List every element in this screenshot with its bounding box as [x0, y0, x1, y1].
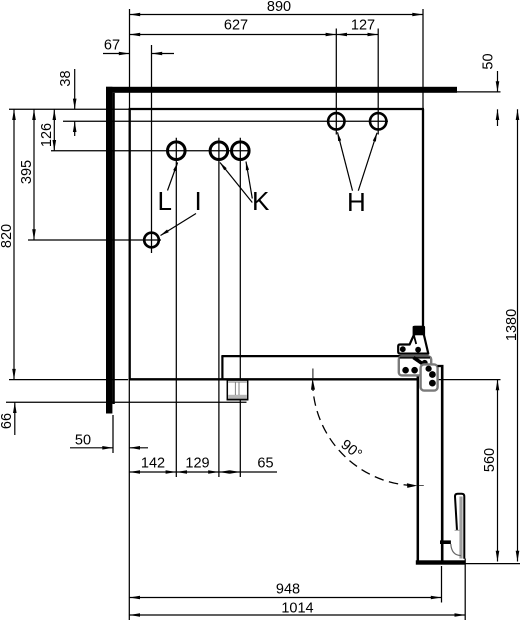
svg-text:L: L	[158, 186, 172, 216]
svg-text:560: 560	[482, 448, 498, 472]
svg-text:65: 65	[257, 456, 273, 472]
svg-text:50: 50	[75, 433, 91, 449]
svg-text:142: 142	[141, 456, 165, 472]
svg-text:1014: 1014	[281, 601, 313, 617]
svg-text:890: 890	[267, 0, 291, 15]
svg-text:I: I	[195, 186, 202, 216]
svg-text:1380: 1380	[504, 309, 520, 341]
svg-text:50: 50	[481, 53, 497, 69]
svg-text:66: 66	[0, 413, 15, 429]
svg-text:38: 38	[58, 70, 74, 86]
svg-text:948: 948	[276, 582, 300, 598]
svg-text:627: 627	[224, 18, 248, 34]
svg-text:67: 67	[104, 38, 120, 54]
svg-text:K: K	[252, 186, 270, 216]
svg-text:H: H	[347, 187, 366, 217]
svg-text:129: 129	[185, 456, 209, 472]
svg-text:127: 127	[351, 18, 375, 34]
svg-text:126: 126	[39, 123, 55, 147]
svg-text:395: 395	[19, 160, 35, 184]
svg-text:820: 820	[0, 224, 15, 248]
svg-text:90°: 90°	[338, 437, 365, 463]
